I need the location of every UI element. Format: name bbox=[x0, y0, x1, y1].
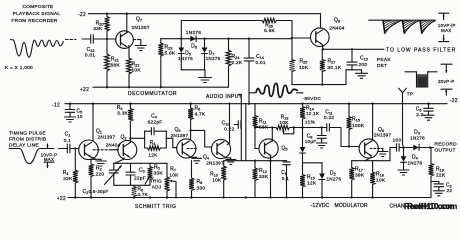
svg-text:2N404: 2N404 bbox=[329, 26, 344, 32]
capacitor C13 0.01 bbox=[82, 35, 116, 59]
node: bottom rail x=150 bbox=[149, 196, 151, 198]
transistor Q8 2N404 bbox=[311, 18, 345, 47]
ground at Q3 emitter bbox=[192, 158, 202, 163]
squiggle waveform at -85VDC bbox=[250, 83, 304, 97]
svg-text:200: 200 bbox=[359, 62, 368, 68]
node: Q2 collector / R3 / R4 box bbox=[129, 137, 131, 139]
node: rail at Q4 collector bbox=[228, 103, 230, 105]
node: rail at R14 bbox=[301, 103, 303, 105]
text: AUDIO INPUT bbox=[206, 94, 242, 100]
svg-text:MAX: MAX bbox=[441, 28, 451, 33]
node: R14 / D1 / C11 junction bbox=[301, 126, 303, 128]
node: rail at R16 bbox=[348, 103, 350, 105]
node: Q8 output bbox=[322, 48, 324, 50]
svg-text:PLAYBACK SIGNAL: PLAYBACK SIGNAL bbox=[13, 11, 61, 17]
svg-text:22K: 22K bbox=[63, 176, 73, 182]
wire: TP drop to output line bbox=[403, 104, 404, 148]
wire: R11 to Q5 base bbox=[255, 128, 259, 149]
node: bottom rail x=286.5 bbox=[285, 196, 287, 198]
svg-text:68K: 68K bbox=[111, 63, 121, 69]
svg-text:10: 10 bbox=[77, 114, 83, 120]
svg-text:TO LOW PASS FILTER: TO LOW PASS FILTER bbox=[386, 47, 456, 53]
resistor R22 10K bbox=[127, 48, 142, 87]
resistor R12 33K bbox=[253, 161, 269, 198]
resistor R20 33K bbox=[93, 14, 109, 39]
ground at C2 bbox=[433, 191, 444, 196]
wire: R26 top run bbox=[181, 20, 292, 22]
wire: -12 rail bbox=[65, 103, 447, 105]
diode D1 (below R14 node) bbox=[300, 128, 306, 163]
transistor Q4 2N1397 bbox=[203, 139, 231, 165]
svg-text:22pF: 22pF bbox=[134, 176, 146, 182]
wire: Q2 collector bbox=[129, 138, 131, 142]
node: rail at Q1 collector bbox=[92, 103, 94, 105]
node: C15 tap bbox=[351, 48, 353, 50]
resistor R21 68K bbox=[105, 39, 121, 87]
capacitor C15 200 (peak det) bbox=[347, 49, 368, 70]
wire: Q2 emitter to box bbox=[115, 158, 124, 164]
dashed lead from waveform bbox=[66, 39, 77, 41]
transistor Q3 2N1397 bbox=[171, 127, 196, 158]
svg-text:5.6K: 5.6K bbox=[264, 28, 275, 34]
resistor R6 4.7K (bottom) bbox=[132, 185, 149, 197]
svg-text:100K: 100K bbox=[352, 123, 365, 129]
node: C14 top bbox=[248, 38, 250, 40]
node: R27 on bottom bus bbox=[321, 83, 323, 85]
wire: Q6 emitter down bbox=[365, 156, 371, 161]
node: R23 bottom bbox=[160, 86, 162, 88]
svg-text:TIMING PULSE: TIMING PULSE bbox=[9, 131, 46, 137]
node: rail at Q6 collector bbox=[371, 103, 373, 105]
svg-text:10K: 10K bbox=[279, 120, 289, 126]
wire: bus riser to R26 loop bbox=[180, 21, 182, 39]
node: R20 top bbox=[106, 13, 108, 15]
capacitor C4 622pF bbox=[145, 114, 167, 135]
svg-text:622pF: 622pF bbox=[148, 120, 163, 126]
resistor R4 12K bbox=[145, 140, 167, 159]
text: CHAN (channel label) bbox=[390, 204, 405, 210]
resistor R19 22K bbox=[429, 148, 446, 198]
svg-text:330: 330 bbox=[197, 186, 206, 192]
svg-text:5.6K: 5.6K bbox=[165, 51, 176, 57]
svg-text:MAX: MAX bbox=[44, 157, 54, 162]
resistor R15 12K bbox=[300, 163, 317, 198]
capacitor C14 0.01 bbox=[244, 39, 266, 104]
wire: Q7 emitter to R22 bbox=[128, 46, 130, 48]
wire: rail drop to Q8 collector bbox=[320, 14, 322, 29]
resistor R1 22K bbox=[63, 149, 78, 198]
wire: R25/R27 bottom bus bbox=[292, 70, 352, 85]
wire: audio input drop bbox=[240, 95, 242, 161]
resistor R7 10K (pot) bbox=[165, 163, 180, 197]
wire: modulator emitter bus bbox=[352, 160, 390, 162]
svg-text:33K: 33K bbox=[93, 26, 103, 32]
wire: C11 to Q6 base bbox=[341, 128, 359, 147]
wire: Q3 collector up bbox=[190, 130, 192, 139]
node: bottom rail x=191.5 bbox=[190, 196, 192, 198]
svg-text:AUDIO INPUT: AUDIO INPUT bbox=[206, 94, 242, 100]
svg-text:DELAY LINE: DELAY LINE bbox=[9, 143, 39, 149]
dashed line in Q6 bbox=[370, 148, 383, 150]
svg-text:±1%: ±1% bbox=[305, 120, 315, 125]
capacitor C1 0.1 bbox=[59, 132, 80, 153]
wire: +22 bottom rail bbox=[68, 197, 431, 199]
watermark ReelH10.com bbox=[404, 202, 457, 211]
resistor R11 68K bbox=[253, 104, 269, 131]
wire: Q5 emitter column bbox=[270, 157, 272, 198]
svg-text:12K: 12K bbox=[148, 153, 158, 159]
svg-text:22: 22 bbox=[447, 188, 453, 194]
diode D4 1N276 bbox=[401, 148, 423, 170]
svg-text:10µF: 10µF bbox=[305, 139, 317, 144]
sawtooth output waveform bbox=[369, 20, 436, 33]
dashed line from Q7 to ground bbox=[134, 39, 142, 41]
text: K = X 1,000 bbox=[5, 65, 33, 71]
-22 supply label (top rail) bbox=[78, 12, 86, 18]
ground at Q7 bbox=[135, 40, 146, 51]
svg-text:1N276: 1N276 bbox=[178, 56, 193, 61]
svg-text:12K: 12K bbox=[307, 181, 317, 187]
svg-text:CHAN: CHAN bbox=[390, 204, 405, 210]
svg-text:RECORD: RECORD bbox=[435, 141, 458, 147]
svg-text:100: 100 bbox=[393, 137, 402, 143]
svg-text:TRIG: TRIG bbox=[150, 179, 162, 184]
resistor R14 12.1K 1% bbox=[300, 104, 320, 128]
svg-text:OUTPUT: OUTPUT bbox=[435, 148, 456, 154]
svg-text:+22: +22 bbox=[80, 87, 89, 93]
svg-text:DECOMMUTATOR: DECOMMUTATOR bbox=[128, 91, 177, 97]
svg-text:DET: DET bbox=[377, 63, 387, 69]
node: R22 bottom bbox=[128, 86, 130, 88]
+22 supply label (mid rail) bbox=[80, 87, 89, 93]
svg-text:33K: 33K bbox=[259, 174, 269, 180]
node: R11 bottom / R13 wire bbox=[254, 126, 256, 128]
resistor R16 100K bbox=[347, 104, 365, 147]
diode D2 1N276 bbox=[319, 163, 341, 198]
wire: Q1 emitter to ground bbox=[91, 157, 101, 161]
wire: R26 to Q8 base bbox=[292, 21, 311, 39]
resistor R23 5.6K bbox=[158, 39, 176, 87]
node: bottom rail x=75.3 bbox=[74, 196, 76, 198]
svg-text:39K: 39K bbox=[355, 173, 365, 179]
text: PEAK DET bbox=[377, 57, 391, 69]
node: Q8 base / R25 bbox=[291, 37, 293, 39]
wire: D5-D7 bottoms bbox=[181, 69, 205, 71]
resistor R6 4.7K (top) bbox=[188, 104, 206, 131]
node: bottom rail x=245.8 bbox=[245, 196, 247, 198]
svg-text:2N1357: 2N1357 bbox=[132, 25, 150, 31]
svg-text:2N1397: 2N1397 bbox=[206, 160, 224, 165]
node: Q5 collector top bbox=[271, 126, 273, 128]
pot wiper R13 bbox=[282, 126, 295, 133]
text: -22 (right end of rail) bbox=[450, 98, 458, 104]
wire: R4 box right edge bbox=[165, 131, 167, 148]
text: composite playback signal from recorder bbox=[11, 4, 60, 24]
ground at D4 bbox=[398, 170, 409, 175]
node: emitter bus x R12 bbox=[254, 160, 256, 162]
node: rail at C5 bbox=[69, 103, 71, 105]
svg-text:1N276: 1N276 bbox=[410, 136, 425, 141]
resistor R10 10K bbox=[210, 161, 226, 198]
resistor R3 3.3K bbox=[117, 104, 133, 139]
text: timing pulse from distrib delay line bbox=[9, 131, 46, 149]
wire: second drop bbox=[245, 104, 247, 161]
ground at Q6 (dash) bbox=[378, 149, 388, 157]
svg-text:-22: -22 bbox=[450, 98, 458, 104]
resistor R26 5.6K bbox=[262, 18, 277, 34]
svg-text:2N1397: 2N1397 bbox=[98, 135, 116, 140]
svg-text:-12VDC: -12VDC bbox=[311, 203, 330, 209]
pulse waveform 20vP-P bbox=[405, 72, 437, 87]
wire: schmitt bottom bus bbox=[114, 184, 150, 186]
wire: R4 box left edge bbox=[144, 131, 146, 148]
text: MODULATOR bbox=[335, 203, 368, 209]
svg-text:-22: -22 bbox=[78, 12, 86, 18]
node: bottom rail x=134 bbox=[133, 196, 135, 198]
svg-text:TP: TP bbox=[407, 91, 413, 96]
dimension: 10VP-P MAX (timing pulse) bbox=[41, 144, 58, 168]
resistor R2 220 bbox=[89, 164, 105, 198]
resistor R5 33K (trig adj pot) bbox=[145, 163, 163, 189]
svg-text:10K: 10K bbox=[132, 68, 142, 74]
node: R16 / base junction bbox=[348, 145, 350, 147]
svg-text:10K: 10K bbox=[376, 178, 386, 184]
svg-text:4.7K: 4.7K bbox=[195, 112, 206, 118]
wire: R13 run bbox=[255, 127, 303, 129]
node: D3/D4 junction bbox=[402, 146, 404, 148]
node: bottom rail x=372.6 bbox=[371, 196, 373, 198]
resistor R13 10K (pot) bbox=[276, 115, 290, 130]
svg-text:ADJ: ADJ bbox=[152, 185, 161, 190]
node: R21 bottom bbox=[106, 86, 108, 88]
-12 supply label (bottom top rail) bbox=[52, 103, 60, 109]
svg-text:1N276: 1N276 bbox=[186, 30, 201, 36]
svg-text:0.01: 0.01 bbox=[256, 60, 266, 66]
svg-text:MODULATOR: MODULATOR bbox=[335, 203, 368, 209]
svg-text:SCHMITT TRIG: SCHMITT TRIG bbox=[135, 204, 176, 210]
capacitor C9 0.1 bbox=[281, 161, 290, 198]
text: DECOMMUTATOR bbox=[128, 91, 177, 97]
capacitor 100 (output coupling) bbox=[390, 137, 404, 160]
svg-text:2.2K: 2.2K bbox=[232, 60, 243, 66]
wire: node to R4 box bbox=[130, 137, 144, 139]
svg-text:22K: 22K bbox=[436, 173, 446, 179]
wire: diode bus bbox=[161, 38, 292, 40]
wire: box to Q3 base bbox=[166, 138, 177, 147]
wire: C11 run bbox=[303, 127, 342, 129]
node: bottom rail x=167 bbox=[166, 196, 168, 198]
svg-text:FROM RECORDER: FROM RECORDER bbox=[11, 18, 57, 24]
svg-text:12.1K: 12.1K bbox=[306, 111, 320, 116]
diode D7 1N276 bbox=[202, 39, 221, 70]
node: record output / R19 bbox=[429, 146, 431, 148]
svg-text:-85VDC: -85VDC bbox=[303, 96, 322, 102]
wire: Q1 emitter to R2 bbox=[91, 159, 96, 164]
ground at Q1 emitter bbox=[96, 161, 106, 166]
svg-text:+22: +22 bbox=[57, 196, 66, 202]
wire: Q4 emitter to ground bbox=[223, 156, 230, 159]
node: Q7 base / R20 / R21 bbox=[106, 38, 108, 40]
node: rail at R3 bbox=[129, 103, 131, 105]
ground at C15 bbox=[356, 70, 368, 79]
capacitor C2 0.8-30pF (variable) bbox=[83, 163, 122, 195]
capacitor C5 10 bbox=[65, 104, 83, 122]
svg-text:2.2: 2.2 bbox=[416, 112, 424, 118]
transistor Q2 2N404 bbox=[106, 135, 137, 160]
node: D5 top bbox=[180, 38, 182, 40]
svg-text:220: 220 bbox=[96, 172, 105, 178]
svg-text:0.22: 0.22 bbox=[324, 115, 334, 121]
svg-text:33K: 33K bbox=[154, 171, 164, 177]
text: TO LOW PASS FILTER bbox=[386, 47, 456, 53]
test point Y TP bbox=[399, 88, 414, 104]
wire: output line to low pass filter bbox=[323, 48, 384, 50]
resistor R18 10K bbox=[370, 161, 386, 198]
ground at C6 bbox=[423, 115, 434, 120]
svg-text:20vP-P: 20vP-P bbox=[438, 79, 455, 84]
wire: emitter bus (Q5 area) bbox=[224, 160, 287, 162]
text: -85VDC bbox=[303, 96, 322, 102]
svg-text:10K: 10K bbox=[212, 178, 222, 184]
capacitor C3 22pF bbox=[126, 163, 146, 185]
wire: Q4 collector riser bbox=[227, 104, 229, 145]
svg-text:K = X 1,000: K = X 1,000 bbox=[5, 65, 33, 71]
node: bottom rail x=91 bbox=[90, 196, 92, 198]
svg-text:0.8-30pF: 0.8-30pF bbox=[89, 189, 109, 194]
node: Q1 base / R1 bbox=[74, 147, 76, 149]
svg-text:-12: -12 bbox=[52, 103, 60, 109]
diode D6 1N276 (in bus) bbox=[186, 30, 201, 50]
wire: +22 mid rail bbox=[93, 86, 229, 88]
resistor R24 2.2K bbox=[226, 39, 243, 87]
dashed line Q1 to Q2 base bbox=[93, 149, 119, 151]
svg-text:COMPOSITE: COMPOSITE bbox=[22, 4, 53, 10]
svg-text:10K: 10K bbox=[299, 65, 309, 71]
transistor Q1 2N1397 bbox=[79, 104, 116, 160]
svg-text:2N404: 2N404 bbox=[106, 143, 121, 148]
+22 supply label (bottom rail) bbox=[57, 196, 66, 202]
svg-text:0.1: 0.1 bbox=[282, 176, 290, 182]
diode D3 1N276 bbox=[404, 130, 431, 151]
svg-text:2N1397: 2N1397 bbox=[374, 133, 392, 138]
dimension: 20vP-P bbox=[438, 64, 455, 95]
dashed line in Q3 bbox=[187, 148, 197, 150]
transistor Q5 2N1397 bbox=[259, 139, 288, 158]
dimension: 10VP-lP MAX bbox=[438, 13, 456, 41]
svg-text:3.3K: 3.3K bbox=[117, 111, 128, 117]
node: rail at C6 bbox=[427, 103, 429, 105]
capacitor C10 0.22 bbox=[222, 121, 241, 133]
node: C8 tap bbox=[321, 126, 323, 128]
ground at Q4 emitter bbox=[226, 160, 236, 165]
svg-text:30.1K: 30.1K bbox=[328, 65, 342, 71]
svg-text:1N276: 1N276 bbox=[206, 56, 221, 61]
wire: R15 to D2 bbox=[303, 162, 323, 164]
node: Q7 collector top bbox=[126, 13, 128, 15]
svg-text:FROM DISTRIB: FROM DISTRIB bbox=[9, 137, 46, 143]
wire: Q5 collector riser bbox=[271, 128, 273, 142]
svg-text:4.7K: 4.7K bbox=[138, 192, 149, 197]
text: RECORD OUTPUT bbox=[435, 141, 458, 153]
capacitor C2 22 (output) bbox=[431, 182, 452, 195]
node: rail at R6 bbox=[189, 103, 191, 105]
diode D5 1N276 bbox=[178, 39, 193, 70]
svg-text:0.01: 0.01 bbox=[85, 53, 95, 59]
node: bottom rail x=351.7 bbox=[351, 196, 353, 198]
wire: R6 node to Q4 base bbox=[191, 130, 212, 147]
capacitor C8 10uF bbox=[305, 128, 326, 145]
node: D7 top bbox=[203, 38, 205, 40]
svg-text:10K: 10K bbox=[169, 173, 179, 179]
node: bottom rail x=322 bbox=[321, 196, 323, 198]
resistor R17 39K bbox=[349, 161, 365, 198]
timing pulse waveform bbox=[9, 149, 54, 164]
transistor Q6 2N1397 bbox=[359, 104, 391, 158]
text: -12VDC bbox=[311, 203, 330, 209]
wire: Q3 emitter to ground bbox=[189, 156, 197, 158]
node: rail at C14 bottom bbox=[248, 103, 250, 105]
svg-text:1N276: 1N276 bbox=[408, 161, 423, 166]
svg-text:0.1: 0.1 bbox=[64, 138, 72, 144]
node: R24 top bbox=[227, 38, 229, 40]
node: bottom rail x=302.5 bbox=[301, 196, 303, 198]
ground at diode bus bbox=[199, 70, 212, 83]
svg-text:0.22: 0.22 bbox=[224, 127, 234, 133]
text: SCHMITT TRIG bbox=[135, 204, 176, 210]
capacitor C11 0.22 bbox=[324, 110, 334, 132]
svg-text:1N276: 1N276 bbox=[327, 177, 342, 182]
wire: record output lead bbox=[430, 147, 434, 149]
node: Q3 collector / R6 bbox=[189, 129, 191, 131]
ground at C8 bbox=[316, 143, 327, 148]
wire: -22 top rail bbox=[89, 13, 321, 15]
composite playback waveform bbox=[11, 40, 64, 58]
node: bottom rail x=223.7 bbox=[223, 196, 225, 198]
node: bottom rail x=270.5 bbox=[269, 196, 271, 198]
node: emitter bus x Q5 bbox=[269, 160, 271, 162]
svg-text:2N1397: 2N1397 bbox=[171, 133, 189, 138]
wire: Q8 emitter down bbox=[321, 44, 324, 49]
capacitor C6 2.2 bbox=[416, 104, 433, 118]
transistor Q7 2N1357 bbox=[116, 14, 150, 49]
svg-text:ReelH10.com: ReelH10.com bbox=[407, 202, 457, 211]
svg-text:PEAK: PEAK bbox=[377, 57, 391, 63]
node: bottom rail x=176 bbox=[175, 196, 177, 198]
resistor R8 330 bbox=[189, 161, 205, 198]
resistor R25 10K bbox=[290, 38, 309, 85]
resistor R27 30.1K bbox=[320, 49, 342, 84]
wire: schmitt emitter bus bbox=[114, 162, 168, 164]
